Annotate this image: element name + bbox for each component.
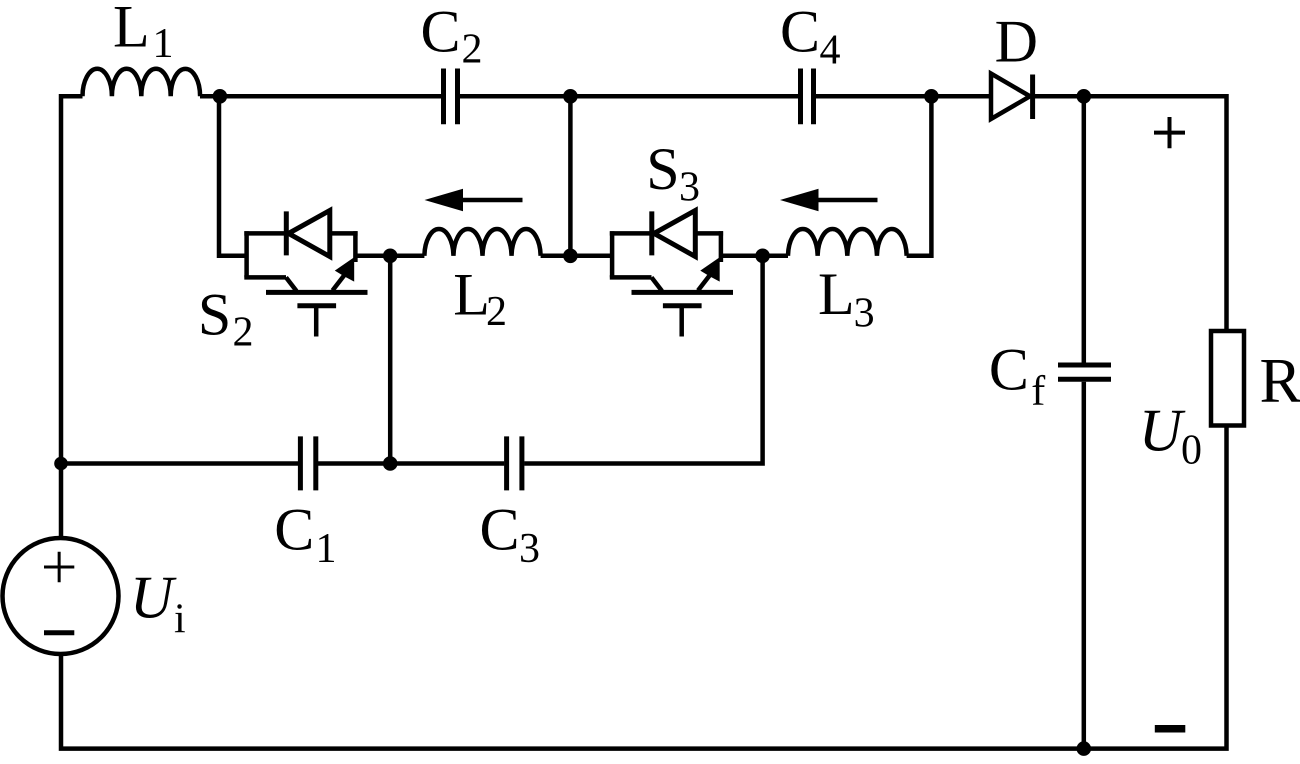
capacitor C1 — [300, 436, 315, 490]
wire: vertical from S2 right node down to C1/C3 node — [388, 256, 393, 464]
wire: middle rail C3 to S3 branch corner — [524, 256, 762, 464]
wire: S2 collector to L2 (node at 390) — [355, 254, 424, 259]
node at L2 right / C2 branch — [563, 249, 578, 264]
wire: top rail C2 to C4 — [460, 94, 798, 99]
svg-text:C: C — [274, 497, 314, 563]
wire: top rail left stub — [61, 96, 83, 539]
current arrow above L2 — [425, 189, 523, 211]
svg-text:C: C — [989, 337, 1029, 403]
wire: right vertical rail lower — [61, 426, 1227, 749]
node at left rail / middle rail — [54, 457, 68, 471]
svg-text:R: R — [1260, 346, 1300, 416]
svg-text:1: 1 — [316, 526, 337, 572]
diode D — [991, 74, 1033, 120]
capacitor C4 — [801, 69, 814, 125]
svg-text:i: i — [174, 597, 186, 643]
node at C4 right / top — [924, 89, 939, 104]
wire: vertical from top node to L2 right node — [568, 96, 573, 256]
node at S2 emitter / L2 left — [383, 249, 398, 264]
wire: L2 to S3 — [541, 254, 613, 259]
minus sign inside source — [44, 630, 74, 635]
svg-text:U: U — [1139, 398, 1186, 464]
transistor S2 (IGBT with anti-parallel diode) — [244, 211, 367, 337]
svg-text:C: C — [480, 497, 520, 563]
svg-text:3: 3 — [519, 526, 540, 572]
svg-text:3: 3 — [854, 291, 875, 337]
wire: Cf branch upper — [1082, 96, 1087, 362]
svg-text:f: f — [1031, 369, 1045, 415]
current arrow above L3 — [780, 189, 878, 211]
node at S3 emitter / L3 left — [755, 249, 770, 264]
wire: vertical from top node down to L3 right end — [907, 96, 932, 256]
transistor S3 (IGBT with anti-parallel diode) — [610, 211, 733, 337]
plus sign output — [1154, 117, 1185, 148]
node at Cf bottom — [1077, 741, 1092, 756]
inductor L1 — [83, 69, 201, 97]
svg-text:4: 4 — [820, 28, 841, 74]
wire: top rail C4 to diode — [816, 94, 989, 99]
node at diode output / Cf top — [1077, 89, 1092, 104]
svg-text:2: 2 — [462, 27, 483, 73]
svg-text:2: 2 — [233, 310, 254, 356]
svg-text:L: L — [818, 261, 855, 327]
capacitor Cf — [1058, 365, 1111, 379]
svg-text:D: D — [995, 9, 1038, 75]
capacitor C3 — [507, 436, 522, 490]
svg-text:2: 2 — [486, 289, 507, 335]
wire: middle rail from left vertical to C1 — [61, 461, 298, 466]
capacitor C2 — [444, 69, 458, 125]
wire: S3 collector to L3 (node at 762.6) — [721, 254, 788, 259]
inductor L2 — [424, 229, 540, 256]
svg-text:S: S — [646, 136, 679, 202]
node at C1/C3 junction — [383, 456, 398, 471]
svg-text:S: S — [198, 282, 231, 348]
plus sign inside source — [44, 552, 74, 582]
node at L1 output — [213, 89, 228, 104]
wire: vertical from L1 node down to S2 — [219, 96, 247, 256]
node at C2 right / top — [563, 89, 578, 104]
svg-text:C: C — [780, 0, 820, 64]
resistor R — [1211, 331, 1244, 426]
wire: top rail diode to right corner — [1035, 96, 1227, 331]
wire: top rail L1 to C2 — [200, 94, 441, 99]
svg-text:3: 3 — [679, 165, 700, 211]
voltage source Ui circle — [3, 538, 119, 654]
svg-text:1: 1 — [153, 21, 174, 67]
svg-text:L: L — [453, 262, 490, 328]
svg-text:0: 0 — [1181, 428, 1202, 474]
inductor L3 — [788, 229, 907, 256]
minus sign output — [1155, 725, 1186, 733]
svg-text:U: U — [130, 565, 177, 631]
wire: Cf branch lower — [1082, 382, 1087, 749]
svg-text:C: C — [421, 0, 461, 65]
wire: middle rail C1 to C3 — [318, 461, 504, 466]
svg-text:L: L — [113, 0, 150, 60]
